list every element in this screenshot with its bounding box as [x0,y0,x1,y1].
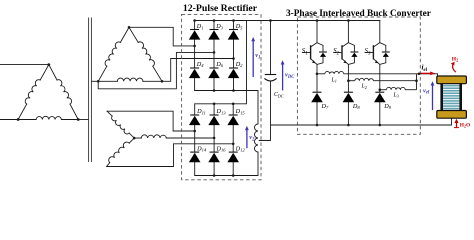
interphase transformer coil [255,124,259,152]
node bridge2 top bus joints [213,103,216,106]
node bottom bus 2 [347,124,350,127]
current arrow i_el [421,72,431,74]
node output bus joint [418,73,421,76]
diode D12 [229,151,238,153]
node primary left vertex [17,118,20,121]
wire bridge1 negative bus [195,91,258,125]
node switch node 3 [379,88,382,91]
diode D8 [347,81,349,125]
primary delta winding bottom side [18,119,36,121]
wire bridge2 positive bus and riser to DC+ [195,21,247,104]
wire phase B input [0,119,18,121]
diode D14 [190,151,199,153]
node S2 collector [347,19,350,22]
node bridge1 top bus 1 [193,19,196,22]
transistor S1 (IGBT) [303,21,327,74]
wye winding middle branch [141,135,166,138]
diode D15 [229,114,238,116]
svg-text:L2: L2 [361,84,367,90]
wire DC- bottom bus to electrolyzer [271,118,452,125]
node bridge2 AC input 1 [193,130,196,133]
node bridge2 bottom bus joints [213,174,216,177]
wire riser to output bus [416,74,418,90]
voltage arrow vDC [282,64,284,91]
svg-text:12-Pulse Rectifier: 12-Pulse Rectifier [183,3,258,14]
node secondary delta apex [128,26,131,29]
H2O input arrow [456,122,458,128]
wire delta apex to bridge1 leg1 [129,27,195,46]
diode D5 [229,29,238,31]
node wye center [133,137,136,140]
wire wye upper branch to bridge2 leg1 [107,111,195,131]
node bridge1 AC input 3 [232,57,235,60]
bridge1 leg 3 wire [233,21,235,91]
svg-text:L1: L1 [331,77,337,83]
wire interphase center tap [259,139,271,141]
inductor L1 [317,73,325,75]
inductor L3 [380,89,387,91]
wire DC+ top bus [195,20,380,22]
diode D16 [210,151,219,153]
diode D9 [379,90,381,125]
wire wye middle branch to bridge2 leg2 [134,137,214,139]
wire wye lower branch to bridge2 leg3 [107,144,234,167]
wire L2 to riser [373,80,416,82]
node primary right vertex [77,118,80,121]
node secondary delta left vertex [97,80,100,83]
node S1 collector [316,19,319,22]
capacitor CDC [265,74,276,76]
wire secondary delta to core [92,80,99,82]
node switch node 1 [316,73,319,76]
diode D7 [316,74,318,125]
node bridge1 AC input 1 [193,45,196,48]
node switch node 2 [347,79,350,82]
voltage arrow v2 [246,129,248,148]
node bridge2 AC input 3 [232,143,235,146]
wire delta left vertex to bridge1 leg2 [98,52,214,88]
node bridge1 top bus 3 [232,19,235,22]
svg-text:L3: L3 [393,92,399,98]
wire L3 to riser [405,89,416,91]
node bottom bus 3 [379,124,382,127]
node DC+ capacitor joint [269,19,272,22]
diode D4 [190,67,199,69]
bridge1 leg 2 wire [213,21,215,91]
wire phase A input [0,64,49,66]
node bridge1 bottom bus joints [213,89,216,92]
diode D3 [210,29,219,31]
wire L1 to output bus [344,74,438,77]
bridge1 leg 1 wire [194,21,196,91]
secondary delta winding bottom side [98,80,117,82]
H2 output arrow [453,64,456,72]
electrolyzer bottom plate [437,111,467,119]
voltage arrow v_el [432,85,434,111]
bridge2 leg 2 wire [213,104,215,176]
transformer core [88,18,90,162]
wire primary to core [78,119,88,121]
secondary delta winding right side [129,27,138,42]
svg-text:H2O: H2O [460,122,470,128]
primary delta winding right side [49,65,57,80]
wye winding upper branch [112,116,130,134]
bridge2 leg 1 wire [194,104,196,176]
bridge2 leg 3 wire [232,104,234,176]
12-pulse rectifier dashed box [182,14,261,179]
svg-text:H2: H2 [452,56,458,62]
diode D11 [190,114,199,116]
buck converter dashed box [297,17,420,134]
diode D1 [190,29,199,31]
svg-text:3-Phase Interleaved Buck Conve: 3-Phase Interleaved Buck Converter [286,9,431,19]
voltage arrow v1 [252,40,254,77]
node bottom bus 1 [316,124,319,127]
transistor S2 (IGBT) [334,21,358,81]
wire bridge2 negative bus [195,152,258,176]
electrolyzer top plate [437,76,467,84]
diode D2 [229,67,238,69]
node bridge1 top bus 2 [213,19,216,22]
node bridge2 AC input 2 [213,137,216,140]
node bridge1 AC input 2 [213,51,216,54]
wire delta right vertex to bridge1 leg3 [162,59,234,82]
transistor S3 (IGBT) [365,21,389,90]
wire DC link top [270,21,272,75]
diode D6 [210,67,219,69]
wire DC link bottom [259,82,271,141]
electrolyzer cell stack [441,84,462,111]
primary delta winding left side [18,104,27,119]
inductor L2 [348,80,354,82]
svg-text:CDC: CDC [274,92,284,98]
wye winding lower branch [109,142,130,163]
secondary delta winding left side [98,66,107,81]
diode D13 [210,114,219,116]
node L2 L3 joint [415,79,418,82]
node secondary delta right vertex [161,80,164,83]
node primary apex [47,63,50,66]
